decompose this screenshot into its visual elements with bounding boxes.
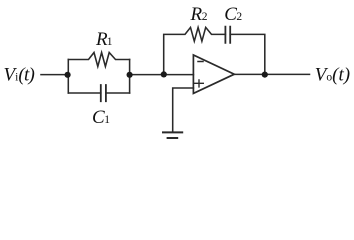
- svg-text:R1: R1: [95, 29, 113, 50]
- svg-text:C2: C2: [224, 4, 242, 25]
- svg-text:Vo(t): Vo(t): [315, 64, 350, 85]
- svg-text:C1: C1: [92, 107, 110, 128]
- svg-text:R2: R2: [190, 4, 208, 25]
- svg-text:Vi(t): Vi(t): [4, 64, 35, 85]
